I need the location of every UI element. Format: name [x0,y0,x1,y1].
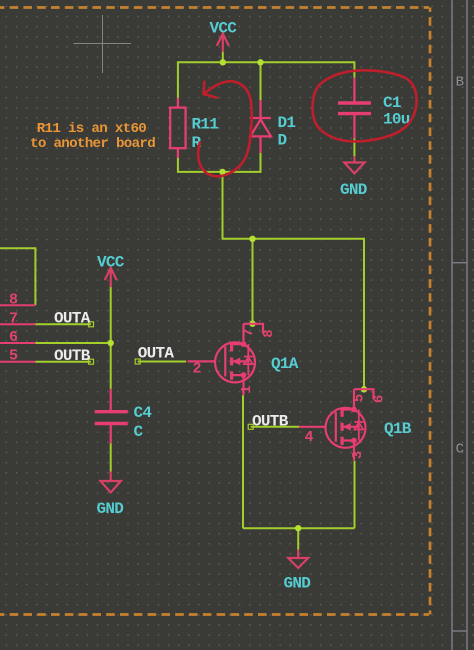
pin 6 line [0,342,35,344]
node VCC top junction [220,59,226,65]
svg-text:6: 6 [371,395,387,403]
transistor Q1A [188,324,277,395]
svg-text:R11 is an xt60: R11 is an xt60 [37,121,147,137]
svg-text:5: 5 [352,394,368,402]
svg-text:OUTB: OUTB [54,347,91,365]
node D1 top junction [257,59,263,65]
wire OUTA to Q1A gate [138,361,187,363]
svg-text:VCC: VCC [97,254,125,272]
wire bottom of R11 loop [178,153,261,172]
wire C4 to GND [110,444,112,472]
node Q1A drain junction [249,321,255,327]
origin crosshair [74,15,132,73]
svg-text:R11: R11 [192,116,219,134]
wire Q1A drain [252,239,254,324]
red blob around C1 [313,70,417,141]
svg-text:8: 8 [261,330,277,338]
svg-text:OUTA: OUTA [54,310,91,328]
node mid rail junction [249,236,255,242]
dangling end squares [89,322,254,430]
pin 5 number [352,394,368,402]
node OUTB2 end [248,424,253,429]
wire D1 top [260,62,262,100]
node Q1B drain junction [361,386,367,392]
svg-text:D1: D1 [278,114,296,132]
wire bottom rail [243,527,355,529]
resistor R11 [170,98,185,158]
wire Q1B source down [354,461,356,528]
svg-text:1: 1 [239,386,255,394]
svg-text:OUTA: OUTA [138,345,175,363]
pin 1 number [239,386,255,394]
svg-text:7: 7 [241,329,257,337]
pin 8 number [261,330,277,338]
wire rail to GND [297,528,299,550]
node OUTA1 end [89,322,94,327]
wire VCC1 tail [222,51,224,62]
sheet frame right [452,0,467,650]
pin 7 line [0,323,35,325]
svg-text:OUTB: OUTB [252,413,289,431]
svg-text:6: 6 [9,329,18,346]
wire pin8 up-over [0,248,35,305]
svg-text:C: C [134,423,144,441]
node OUTA2 end [135,359,140,364]
wire OUTB to Q1B gate [251,426,299,428]
svg-text:Q1A: Q1A [271,355,299,373]
svg-text:C: C [456,442,464,458]
transistor Q1B [299,389,387,460]
wire pin7 to OUTA [35,323,91,325]
svg-text:to another board: to another board [30,136,155,152]
pin 7 number [241,329,257,337]
node OUTB1 end [89,359,94,364]
pin 5 line [0,361,35,363]
svg-text:D: D [278,132,287,150]
pin 3 number [350,451,366,459]
pin 8 line [0,304,35,306]
svg-text:GND: GND [340,181,367,199]
svg-text:5: 5 [9,348,18,365]
wire C1 to GND [353,139,355,157]
wire pin6 to VCC [35,342,110,344]
svg-text:7: 7 [9,310,17,327]
pin 6 number [371,395,387,403]
capacitor C4 [95,389,128,444]
ground for C4 [101,472,121,493]
wire pin5 to OUTB [35,361,91,363]
svg-text:C4: C4 [134,404,153,422]
svg-text:VCC: VCC [210,20,238,38]
wire loop to mid rail [223,172,365,389]
wire top rail VCC [178,62,355,98]
svg-text:2: 2 [193,360,202,377]
svg-text:Q1B: Q1B [384,420,412,438]
wire Q1A source down [242,395,244,528]
red circled arrow around R11 loop [198,81,251,176]
wire VCC2 down to C4 [110,286,112,389]
svg-text:B: B [456,75,464,91]
svg-text:4: 4 [305,429,314,446]
ground for C1 [344,156,364,173]
node VCC2 junction [108,340,114,346]
svg-text:GND: GND [284,575,311,593]
svg-text:3: 3 [350,451,366,459]
node GND rail junction [295,525,301,531]
ground bottom rail [288,550,308,568]
svg-text:GND: GND [97,500,124,518]
diode D1 [250,100,271,153]
svg-text:8: 8 [9,292,18,309]
power VCC left [105,268,116,287]
power VCC top [217,34,228,52]
node loop bottom junction [219,169,225,175]
svg-text:C1: C1 [383,94,401,112]
capacitor C1 [338,78,371,139]
